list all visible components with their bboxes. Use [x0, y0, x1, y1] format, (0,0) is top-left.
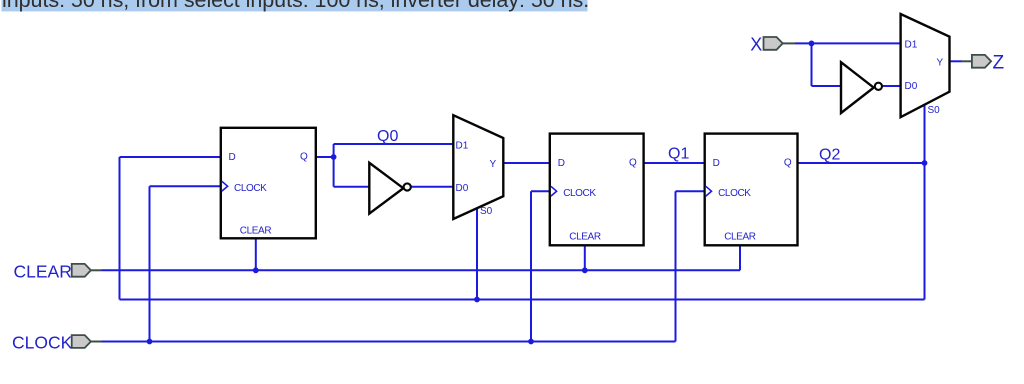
svg-text:CLOCK: CLOCK [563, 188, 596, 199]
svg-text:Q0: Q0 [377, 128, 398, 145]
svg-text:D1: D1 [905, 39, 918, 50]
svg-text:CLOCK: CLOCK [12, 333, 73, 353]
svg-text:CLEAR: CLEAR [724, 232, 756, 243]
svg-text:D: D [229, 152, 236, 163]
svg-text:Q: Q [784, 158, 792, 169]
svg-text:CLOCK: CLOCK [234, 183, 267, 194]
svg-text:CLEAR: CLEAR [240, 225, 272, 236]
svg-text:S0: S0 [480, 206, 493, 217]
svg-text:CLEAR: CLEAR [14, 262, 72, 282]
svg-text:D: D [713, 158, 720, 169]
svg-text:D0: D0 [456, 183, 469, 194]
svg-text:CLEAR: CLEAR [569, 232, 601, 243]
svg-text:D: D [558, 158, 565, 169]
svg-text:Q: Q [300, 152, 308, 163]
svg-text:D0: D0 [905, 81, 918, 92]
svg-text:D1: D1 [456, 141, 469, 152]
svg-text:Q1: Q1 [668, 145, 689, 162]
svg-text:Y: Y [937, 58, 944, 69]
svg-text:Z: Z [993, 53, 1005, 74]
svg-text:Q: Q [629, 158, 637, 169]
svg-text:Q2: Q2 [819, 147, 840, 164]
svg-text:Y: Y [490, 159, 497, 170]
svg-text:CLOCK: CLOCK [718, 188, 751, 199]
svg-text:S0: S0 [928, 105, 941, 116]
svg-text:inputs: 50 ns, from select inp: inputs: 50 ns, from select inputs: 100 n… [2, 0, 589, 12]
svg-text:X: X [750, 34, 762, 54]
